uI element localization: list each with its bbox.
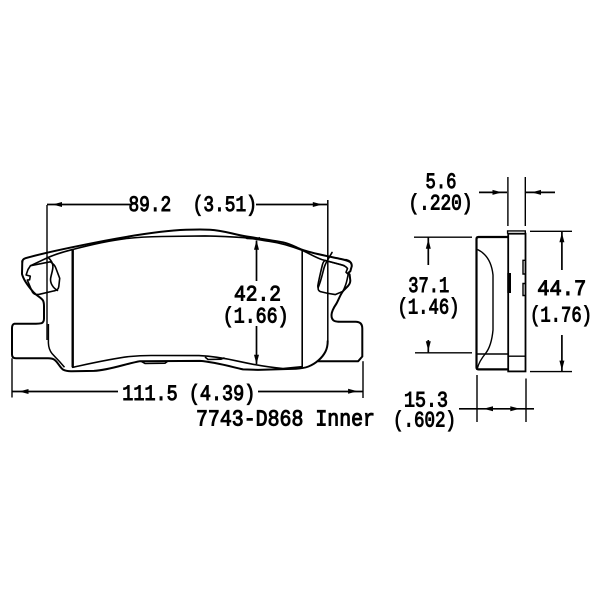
svg-text:44.7: 44.7 [537,277,586,302]
dimension 111.5 extension line right [362,361,364,398]
dimension 5.6 extension lines [508,177,525,226]
svg-text:7743-D868 Inner: 7743-D868 Inner [196,407,375,433]
left ear S-curve (friction boundary) [48,257,57,290]
right ear S-curve (friction boundary) [318,253,332,288]
dimension 89.2 extension line right / plate edge [327,200,329,341]
side view: upper bracket on plate right edge [523,260,525,274]
svg-text:(.220): (.220) [409,192,473,217]
side view: thick bar on plate left edge [507,273,511,293]
left view: right ear inner contour [318,253,348,295]
dimension 37.1 extension lines [414,237,472,353]
left view: plate right side with ear, S-curve and right tab [318,260,362,361]
dimension 89.2 extension line left [46,205,48,340]
svg-text:(1.76): (1.76) [530,304,592,329]
side view: plate internal line [508,355,525,357]
dimension 5.6 line with arrows [479,191,555,193]
left view: friction pad top edge (inner arc) [31,236,345,266]
dimension 44.7 extension lines [530,231,572,371]
dimension 111.5 line with arrows [12,391,363,393]
left view: friction pad right vertical edge [301,250,303,367]
left view: friction pad bottom edge (inner arc) [73,356,303,369]
side view: pad internal line [477,353,508,355]
left view: tab inner contour line [48,324,64,367]
side view: plate top step (shim) [508,231,526,234]
svg-text:(.602): (.602) [393,409,456,434]
left view: friction pad left vertical edge [71,250,73,368]
dimension 15.3 line with arrows [459,408,534,410]
left view: backing plate outer outline [22,230,349,262]
left view: bottom edge tick bumps [141,236,260,364]
left view: plate left side and bottom tab outline [12,261,328,371]
svg-text:111.5 (4.39): 111.5 (4.39) [122,382,255,407]
dimension 15.3 extension lines [477,375,526,422]
svg-text:(1.46): (1.46) [398,296,460,321]
side view: pad chamfer curve [478,250,494,369]
left view: left ear inner contour [26,257,60,294]
svg-text:(1.66): (1.66) [223,305,289,330]
dimension 44.7 line with arrows [561,232,563,372]
dimension 42.2 line with arrows [256,241,258,365]
svg-text:89.2 (3.51): 89.2 (3.51) [128,193,257,218]
side view: friction pad outline [477,237,509,369]
dimension 37.1 line with arrows [427,238,429,353]
side view: backing plate rectangle [508,234,525,372]
dimension 111.5 extension line left [11,358,13,397]
dimension 89.2 line with arrows [47,204,327,206]
side view: lower bracket on plate right edge [523,284,525,296]
